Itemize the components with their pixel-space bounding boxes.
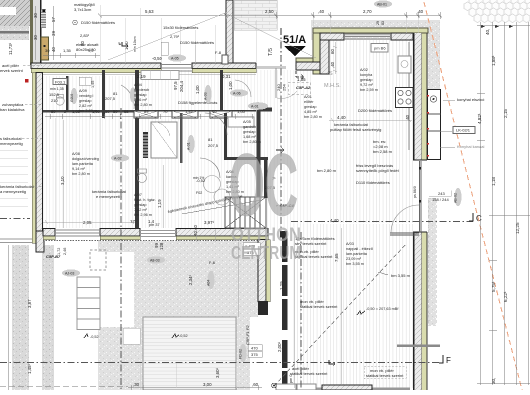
svg-text:M.H.S.: M.H.S. (324, 83, 341, 89)
oval tags (62, 0, 462, 362)
entry door arcs (235, 80, 251, 97)
svg-text:4,82¹: 4,82¹ (477, 113, 482, 124)
svg-text:A-01: A-01 (187, 142, 191, 150)
right margin dim lines (480, 22, 528, 385)
svg-text:C5P-A2: C5P-A2 (296, 85, 311, 90)
svg-text:40,: 40, (485, 29, 490, 35)
svg-text:dolgozó/vendég: dolgozó/vendég (72, 157, 99, 161)
svg-text:1,88¹: 1,88¹ (491, 55, 496, 66)
note keramia kitchen (330, 122, 381, 132)
svg-text:statikai tervek szerint: statikai tervek szerint (300, 304, 338, 309)
svg-text:hást. h. tgáz.: hást. h. tgáz. (134, 198, 156, 202)
svg-text:57: 57 (51, 17, 56, 22)
svg-text:,30: ,30 (133, 382, 140, 387)
svg-text:S: S (329, 71, 333, 77)
kitchen counter edge (408, 42, 410, 150)
svg-text:5,63: 5,63 (145, 9, 154, 14)
svg-text:lam.parketta: lam.parketta (346, 252, 368, 256)
orange boundary dashed (424, 2, 522, 390)
dashed box entry C5P-A2 (288, 82, 310, 94)
svg-text:15x30 födémáttörés: 15x30 födémáttörés (163, 25, 198, 30)
svg-text:1,45: 1,45 (91, 81, 95, 88)
living room floor hatch (291, 224, 414, 388)
left stipple strip 2 (42, 245, 54, 390)
svg-text:470: 470 (251, 346, 258, 351)
corridor door arc (121, 85, 134, 109)
svg-text:1,05: 1,05 (237, 109, 246, 114)
svg-text:1,00: 1,00 (228, 81, 233, 90)
shower A07 (151, 122, 177, 158)
room label A08 (72, 152, 99, 176)
wall stairwell vertical (226, 0, 233, 63)
svg-text:1,00: 1,00 (195, 85, 200, 94)
svg-text:1,18: 1,18 (491, 177, 496, 186)
partition corridor/A05 vertical (224, 113, 227, 159)
watermark OC logo (229, 135, 301, 263)
svg-text:81: 81 (113, 91, 118, 96)
svg-text:A/09: A/09 (79, 89, 87, 93)
svg-text:-0,52: -0,52 (90, 335, 99, 339)
note mattbgyujto top (74, 2, 95, 12)
C marker (469, 213, 482, 223)
svg-text:152,5: 152,5 (49, 92, 60, 97)
svg-text:,60: ,60 (252, 382, 259, 387)
svg-text:2,82 m²: 2,82 m² (79, 104, 93, 108)
svg-text:11,73¹: 11,73¹ (8, 42, 13, 55)
svg-text:statikai tervek szerint: statikai tervek szerint (290, 371, 328, 376)
svg-text:2,50: 2,50 (265, 9, 274, 14)
svg-text:2,19: 2,19 (137, 74, 146, 79)
beam over right wall bottom (397, 345, 440, 348)
svg-text:min 1,35: min 1,35 (50, 87, 64, 91)
note konyhai elszivo (440, 97, 485, 149)
faint construction extension lines top margin (55, 5, 418, 390)
partition A05/A06 horizontal (224, 157, 268, 160)
stipple strip beside right wall lower (428, 198, 436, 325)
svg-text:1,00: 1,00 (92, 109, 101, 114)
svg-text:158 / 244: 158 / 244 (432, 197, 449, 202)
level marker terrace (172, 334, 188, 338)
central rooms floor hatch (139, 70, 256, 228)
dim end ticks right margin (481, 25, 513, 28)
left inner dim row y116 (45, 116, 254, 118)
room label A02 (360, 68, 378, 92)
svg-text:4,85 m²: 4,85 m² (304, 110, 318, 114)
svg-text:bm 2,96 m: bm 2,96 m (134, 213, 152, 217)
bottom small furniture boxes (276, 384, 316, 390)
svg-text:70: 70 (163, 109, 168, 114)
svg-text:3,00: 3,00 (203, 382, 212, 387)
small arrow symbols (122, 42, 335, 366)
inner dim texts row y114 (51, 109, 246, 114)
svg-text:1,42: 1,42 (185, 109, 194, 114)
svg-text:30: 30 (33, 35, 38, 40)
svg-text:D110 födémáttörés: D110 födémáttörés (356, 180, 390, 185)
svg-text:A8-03: A8-03 (150, 259, 160, 263)
svg-text:min 1%: min 1% (193, 176, 204, 180)
svg-text:A/03: A/03 (346, 242, 354, 246)
svg-text:243: 243 (438, 191, 445, 196)
svg-text:A/02: A/02 (360, 68, 368, 72)
washer circles corridor (204, 176, 221, 193)
exterior stipple above kitchen wall (311, 20, 440, 92)
svg-text:51/A: 51/A (283, 34, 306, 46)
svg-text:40: 40 (51, 47, 56, 52)
window frame in right wall (420, 161, 422, 232)
white stair landing notch (98, 252, 134, 327)
axis vertical left (120, 108, 122, 390)
svg-text:a mennyezetig: a mennyezetig (0, 189, 26, 194)
svg-text:lam.parketta: lam.parketta (72, 162, 94, 166)
room label A07 (134, 193, 156, 217)
svg-text:C: C (476, 214, 482, 223)
red marker left wall (25, 79, 29, 83)
partition bath/corridor x180 (180, 113, 183, 163)
svg-text:1,35: 1,35 (297, 77, 306, 82)
room label A01 (304, 95, 322, 119)
right exterior wall full height (390, 33, 440, 390)
svg-text:29: 29 (376, 21, 380, 25)
wc in A09 (56, 95, 64, 106)
axis horizontal bottom (0, 362, 440, 364)
svg-text:nappali - étkező: nappali - étkező (346, 247, 373, 251)
svg-text:0,31: 0,31 (222, 74, 231, 79)
svg-text:D150 födémáttörés: D150 födémáttörés (81, 20, 115, 25)
boxed 470/375 labels bottom (248, 345, 262, 358)
svg-text:1,29: 1,29 (279, 281, 284, 290)
beam line top of living room (291, 221, 473, 223)
svg-text:greslap: greslap (134, 203, 146, 207)
room label A03 (346, 242, 373, 266)
top-left hatched blocks (0, 0, 26, 7)
svg-text:240: 240 (276, 84, 281, 91)
room label A06 (226, 170, 244, 194)
level marker living (357, 307, 399, 315)
svg-text:2,34¹: 2,34¹ (188, 274, 193, 285)
svg-text:375: 375 (251, 352, 258, 357)
svg-text:garderob: garderob (134, 88, 149, 92)
svg-text:e mennyezetig: e mennyezetig (96, 194, 122, 199)
svg-text:ervek szerint: ervek szerint (0, 68, 24, 73)
svg-text:F02: F02 (196, 191, 202, 195)
svg-text:bm 2,80 m: bm 2,80 m (72, 172, 90, 176)
brick wall pattern top centre (234, 0, 277, 30)
svg-text:1,35: 1,35 (63, 48, 72, 53)
left rooms floor hatch (43, 76, 135, 228)
svg-text:6,22¹: 6,22¹ (503, 291, 508, 302)
steps outside left (77, 277, 100, 330)
room label A05 (243, 120, 261, 144)
svg-text:bm 2,80 m: bm 2,80 m (134, 103, 152, 107)
dim row y55 left (43, 55, 100, 57)
svg-text:pm B6: pm B6 (374, 46, 386, 51)
note mon vb piller bottom right (364, 367, 406, 379)
kitchen window top (344, 34, 391, 39)
svg-text:↳: ↳ (118, 41, 121, 46)
faint interior dimension lines (43, 13, 412, 388)
svg-text:1,19: 1,19 (157, 199, 162, 208)
svg-text:A04: A04 (207, 280, 211, 286)
svg-text:LK-02/1: LK-02/1 (456, 128, 471, 133)
svg-text:CENTRUM: CENTRUM (231, 243, 301, 263)
svg-text:207,5: 207,5 (208, 143, 219, 148)
svg-text:128: 128 (159, 242, 164, 250)
radiator bath A07 (143, 132, 148, 158)
svg-text:A-06: A-06 (233, 92, 241, 96)
kitchen floor hatch (329, 40, 413, 223)
svg-text:210: 210 (51, 98, 58, 103)
svg-text:2,70: 2,70 (363, 9, 372, 14)
svg-text:30: 30 (45, 48, 50, 53)
svg-text:mennyezetig: mennyezetig (0, 141, 23, 146)
svg-text:7,42 m²: 7,42 m² (134, 208, 148, 212)
wall left exterior vertical (32, 73, 44, 253)
svg-text:7,65: 7,65 (334, 253, 339, 262)
partition right of A08 (135, 70, 139, 229)
svg-text:bm 2,80 m: bm 2,80 m (304, 115, 322, 119)
svg-text:greslap: greslap (360, 78, 372, 82)
svg-text:szennyíteők pörgő fedét: szennyíteők pörgő fedét (356, 168, 400, 173)
svg-text:vendég l: vendég l (79, 94, 94, 98)
svg-text:bm 2,59 m: bm 2,59 m (360, 88, 378, 92)
note 15x30 fodematt (163, 25, 214, 45)
svg-text:-0,50 = 207,63 mBf: -0,50 = 207,63 mBf (366, 307, 399, 311)
svg-text:pm 37: pm 37 (149, 223, 160, 227)
svg-text:-0,52: -0,52 (179, 334, 188, 338)
svg-text:68: 68 (124, 109, 129, 114)
cooktop (396, 88, 414, 108)
window opening lines (55, 230, 100, 236)
svg-text:1,03: 1,03 (72, 109, 81, 114)
left margin ruled lines (0, 150, 28, 206)
neighbour kitchen cabinets right of wall (427, 90, 440, 160)
svg-text:C5P-F1 F2: C5P-F1 F2 (245, 325, 250, 345)
partition A09/corridor (102, 70, 105, 118)
bottom wall at page edge (314, 388, 410, 391)
svg-text:,40: ,40 (417, 9, 424, 14)
svg-text:ban kialakítva: ban kialakítva (0, 107, 25, 112)
svg-text:A-02: A-02 (114, 157, 122, 161)
svg-text:bm 2,58 m: bm 2,58 m (373, 149, 393, 154)
note F8 (215, 50, 228, 64)
svg-text:81: 81 (208, 137, 213, 142)
wall top-left vertical composite (30, 0, 42, 65)
partition under top small rooms (43, 110, 136, 113)
svg-text:konyha: konyha (360, 73, 373, 77)
entry floor hatch (256, 70, 311, 230)
svg-text:előtér: előtér (304, 100, 314, 104)
svg-text:207,5: 207,5 (105, 96, 116, 101)
deck with boards bottom centre (143, 317, 236, 390)
bottom dim line (0, 385, 262, 390)
kitchen wall masonry top (320, 33, 344, 40)
svg-text:1,00: 1,00 (124, 41, 129, 50)
svg-text:A/01: A/01 (304, 95, 312, 99)
svg-text:2,79¹: 2,79¹ (170, 34, 180, 39)
svg-text:D200 födémáttörés: D200 födémáttörés (358, 108, 392, 113)
note 12x12 fodematt living (295, 236, 335, 259)
svg-text:3,7x13cm: 3,7x13cm (74, 7, 92, 12)
svg-text:greslap: greslap (243, 130, 255, 134)
svg-text:A-03: A-03 (204, 92, 208, 100)
svg-text:statikai tervek szerint: statikai tervek szerint (366, 373, 404, 378)
svg-text:40 40: 40 40 (193, 224, 198, 236)
section triangle 51/A (268, 28, 306, 56)
small dim ticks 45deg (98, 14, 442, 18)
terrace right wall (258, 240, 270, 316)
svg-text:60: 60 (330, 49, 335, 54)
note mon vb pillar lower (300, 299, 338, 309)
svg-text:39: 39 (51, 31, 56, 36)
G2L6 oval (71, 88, 78, 104)
note keramia left (92, 189, 127, 199)
room label A04 (134, 83, 152, 107)
wall bottom band of upper block (43, 229, 268, 241)
svg-text:50: 50 (105, 109, 110, 114)
svg-text:Konyhai kanaal: Konyhai kanaal (457, 144, 484, 149)
margin leader dashes (22, 65, 42, 186)
diagonal dashed sight line living (274, 243, 407, 386)
left stipple strip 1 (12, 245, 29, 390)
pm B6 box (371, 44, 388, 53)
svg-text:3,10: 3,10 (60, 176, 65, 185)
svg-text:30,: 30, (491, 378, 496, 384)
svg-text:gardrób: gardrób (243, 125, 256, 129)
svg-text:AB-01: AB-01 (377, 3, 387, 7)
sink kitchen (398, 56, 411, 73)
svg-text:ps 86/0: ps 86/0 (413, 186, 417, 198)
svg-text:G2L6: G2L6 (70, 94, 74, 102)
level marker terrace left (84, 334, 99, 339)
note acel piller bottom (290, 366, 328, 376)
svg-text:9,72 m²: 9,72 m² (360, 83, 374, 87)
svg-text:A/05: A/05 (243, 120, 251, 124)
terrace stipple (98, 241, 258, 390)
svg-text:AB-02: AB-02 (454, 193, 458, 203)
closet A04 (141, 71, 179, 80)
living room left wall (280, 231, 287, 238)
svg-text:greslap: greslap (134, 93, 146, 97)
partition garderob/A05 vertical (220, 70, 223, 110)
svg-text:80: 80 (51, 109, 56, 114)
svg-text:83: 83 (381, 21, 385, 25)
neighbour wall lines left edge (0, 239, 32, 243)
svg-text:254: 254 (282, 84, 287, 91)
svg-text:konyhai elszívó: konyhai elszívó (457, 97, 485, 102)
svg-text:9,14 m²: 9,14 m² (72, 167, 86, 171)
note 158/244 (429, 191, 451, 203)
CSP labels (46, 41, 311, 345)
svg-text:204,4: 204,4 (179, 80, 184, 92)
partition WC/A09 (66, 76, 69, 112)
svg-text:D150 födémáttörés: D150 födémáttörés (180, 40, 214, 45)
svg-text:AJ-03: AJ-03 (65, 272, 74, 276)
right margin rotated dims (477, 29, 520, 384)
svg-text:17: 17 (130, 219, 135, 224)
svg-text:bm 3,55 m: bm 3,55 m (391, 273, 411, 278)
svg-text:A-01: A-01 (251, 105, 259, 109)
wall horizontal band top of left block (31, 63, 256, 75)
svg-text:2,83¹: 2,83¹ (80, 33, 90, 38)
svg-text:F03.1: F03.1 (55, 80, 66, 85)
svg-text:50: 50 (113, 109, 118, 114)
svg-text:bm 2,80 m: bm 2,80 m (317, 168, 337, 173)
note D150 fodematt top-left (73, 20, 115, 52)
F03.1 labels top-left room (49, 80, 276, 196)
svg-text:A/08: A/08 (72, 152, 80, 156)
top dim line (100, 15, 440, 17)
svg-text:4,40: 4,40 (337, 115, 346, 120)
top-left vertical dim (36, 6, 54, 60)
svg-text:,40: ,40 (330, 61, 335, 68)
boxed 470/375 labels mid (209, 243, 260, 266)
svg-text:F-8: F-8 (215, 50, 222, 55)
svg-text:4,40: 4,40 (330, 218, 339, 223)
white box left of deck (123, 328, 140, 344)
closet boxes A09 (79, 77, 91, 85)
svg-text:1,45¹: 1,45¹ (27, 363, 32, 374)
F marker (439, 355, 451, 365)
svg-text:5,75¹: 5,75¹ (491, 281, 496, 292)
svg-text:2,46: 2,46 (63, 248, 67, 255)
wc A07 (138, 169, 147, 183)
stairs (182, 158, 268, 228)
kitchen L wall olive top (296, 28, 428, 74)
svg-text:A/04: A/04 (134, 83, 142, 87)
svg-text:greslap: greslap (79, 99, 91, 103)
wood column left (41, 37, 49, 60)
svg-text:C5P-B7: C5P-B7 (46, 254, 61, 259)
svg-text:D158 figyelemfelhívás: D158 figyelemfelhívás (178, 100, 217, 105)
dim texts row y55 (45, 48, 94, 53)
note friss levego (356, 163, 400, 185)
window in band (161, 65, 192, 72)
svg-text:10: 10 (212, 109, 217, 114)
note bm355 arrow (378, 272, 411, 278)
svg-text:pultlap fölött felső szekrényi: pultlap fölött felső szekrényig (330, 127, 381, 132)
svg-text:bm 3,55 m: bm 3,55 m (346, 262, 364, 266)
hex paving top right (464, 0, 530, 23)
svg-text:T/5: T/5 (268, 48, 274, 56)
closet A05 (228, 117, 254, 127)
svg-text:F: F (446, 356, 451, 365)
svg-text:2,00¹: 2,00¹ (277, 341, 282, 352)
svg-text:9,2: 9,2 (88, 48, 94, 53)
F03.1 box (53, 79, 67, 85)
svg-text:A/07: A/07 (134, 193, 142, 197)
note bm kitchen (373, 139, 393, 154)
svg-text:greslap: greslap (304, 105, 316, 109)
svg-text:2,15: 2,15 (503, 109, 508, 118)
svg-text:3,87: 3,87 (27, 299, 32, 308)
radiator top-left (41, 9, 46, 28)
svg-text:,40: ,40 (318, 9, 325, 14)
svg-text:3,60¹: 3,60¹ (215, 367, 220, 378)
margin notes left (0, 63, 35, 194)
svg-text:97,5: 97,5 (173, 81, 178, 90)
axis vertical centre (280, 28, 282, 232)
svg-text:5,56 m²: 5,56 m² (134, 98, 148, 102)
partition right column x256 (257, 108, 261, 230)
left axis dash segment (0, 218, 30, 220)
svg-text:89: 89 (144, 109, 149, 114)
svg-text:FD-02: FD-02 (239, 349, 243, 359)
svg-text:30: 30 (33, 13, 38, 18)
svg-text:23,09 m²: 23,09 m² (346, 257, 362, 261)
svg-text:3,97¹: 3,97¹ (204, 220, 215, 225)
room label A09 (79, 89, 97, 113)
svg-text:A-05: A-05 (171, 57, 179, 61)
